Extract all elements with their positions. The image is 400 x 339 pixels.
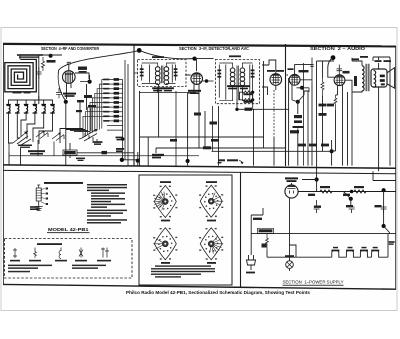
schematic top rule: [3, 44, 396, 47]
label ps left: [253, 218, 262, 220]
wafer S2B outline: [200, 228, 222, 260]
heater top bars: [331, 250, 379, 252]
coupling cap C12: [310, 58, 314, 84]
node dot rail bus: [120, 158, 124, 162]
capacitor C1: [36, 67, 42, 79]
R21 label: [343, 186, 364, 196]
node dot ladder bottom: [121, 137, 125, 141]
resistor R7 in T2: [242, 99, 253, 101]
wafer S1B pin numbers: [199, 185, 223, 217]
panel sym3: [59, 248, 61, 259]
C22 label: [375, 205, 382, 207]
V3 plate: [273, 74, 280, 76]
converter tube V1 envelope: [63, 71, 76, 84]
T2 primary coil: [230, 68, 235, 86]
wire V4 plate out: [297, 88, 310, 92]
wire V4 lower: [298, 91, 308, 166]
wafer S1B wiper lines: [211, 193, 223, 206]
wire antenna to tube: [43, 54, 62, 56]
resistor R6 in T2: [242, 91, 253, 93]
V5 cathode resistor R13: [334, 95, 337, 110]
speaker label: [375, 60, 392, 62]
resistor R1 vertical: [41, 57, 44, 71]
node dot S3 top: [382, 224, 386, 228]
IF transformer T1 shield box: [138, 60, 187, 87]
ladder nest wires: [83, 80, 107, 137]
T3 core bars: [365, 64, 369, 91]
wire lamp: [290, 198, 297, 271]
wafer S2A hub: [162, 241, 168, 247]
filter resistor R20: [320, 190, 332, 193]
avc labels: [170, 139, 219, 142]
socket box text: [151, 265, 215, 277]
osc pointer digits: [46, 188, 48, 206]
wire right tp: [373, 171, 396, 226]
node dot C14: [330, 149, 334, 153]
osc components labels: [76, 95, 96, 112]
wafer part labels: [160, 181, 217, 264]
T1 side rails: [150, 65, 173, 83]
coil row L2-L7: [6, 104, 55, 113]
wire V2 grid top: [185, 59, 214, 75]
wire top grid arc: [58, 50, 194, 100]
instructions text block: [87, 184, 127, 224]
R20 label: [308, 186, 330, 196]
V5 top lead: [337, 65, 343, 75]
panel sym5: [101, 248, 109, 258]
test point label 2: [76, 158, 85, 161]
node dot below V1: [64, 100, 68, 104]
wire ps left column: [251, 208, 263, 234]
wafer S2B pin numbers: [199, 228, 223, 260]
V6 plate hatch: [288, 189, 296, 194]
bus wire chassis: [3, 170, 396, 173]
heater right label: [389, 241, 395, 245]
osc coil top lug: [37, 185, 40, 188]
wire V5 grid lead: [328, 58, 335, 77]
V2 cathode resistor label: [194, 113, 217, 125]
oscillator coil drawing: [35, 188, 43, 211]
osc coil hatch: [36, 191, 41, 199]
resistor 55ohm vertical: [266, 234, 269, 250]
loop antenna label: [13, 54, 44, 93]
T3 primary hookup: [352, 58, 362, 92]
schematic left frame: [2, 44, 4, 285]
section divider 4/3: [133, 44, 135, 166]
V3 label: [267, 70, 284, 72]
T2 bottom label: [245, 108, 253, 111]
svg-text:SECTION 1–POWER SUPPLY: SECTION 1–POWER SUPPLY: [283, 279, 344, 284]
wafer S1A pin numbers: [153, 186, 177, 218]
panel text lines: [8, 265, 106, 273]
tube V1 plate: [65, 73, 73, 75]
wafer S1B pins: [204, 193, 218, 209]
mid labels R10 R11: [298, 104, 334, 147]
node dot V4 plate: [300, 86, 304, 90]
wire V1 cathode to bus: [65, 102, 67, 166]
panel sym2: [34, 248, 37, 258]
wire heater string right: [387, 234, 389, 258]
model heading underline: [47, 231, 90, 234]
test point label S1: [18, 145, 32, 148]
schematic bottom rule: [3, 284, 396, 289]
speaker voice coil secondary: [374, 71, 376, 88]
switch S1 arrow: [24, 132, 27, 135]
osc coil label: [30, 206, 40, 210]
T2 trimmer out: [252, 65, 254, 98]
wire T1 in: [134, 73, 196, 93]
wire plug drop: [250, 234, 252, 255]
wire T1 sec down: [175, 91, 177, 166]
output transformer T3 primary: [362, 66, 364, 91]
T1 hookup wires: [142, 63, 176, 84]
wire hum bus: [251, 233, 396, 234]
switch contacts mid: [36, 131, 64, 141]
test point label ladder: [116, 137, 123, 141]
tube V1 grid hatch: [65, 71, 72, 83]
heater V2h: [346, 251, 360, 258]
T1 core: [162, 66, 163, 84]
wafer S1A pins: [158, 193, 172, 209]
label near rail: [116, 148, 124, 152]
V4 plate: [292, 75, 298, 77]
wire dot to bus: [187, 161, 189, 166]
wire V2 plate right: [203, 80, 214, 82]
filter cap C21: [349, 207, 355, 213]
wafer S1A wiper lines: [153, 192, 165, 211]
C21 label: [346, 205, 353, 207]
wafer S1A hub: [162, 199, 168, 205]
wire T2 to V3: [262, 60, 276, 95]
osc coil pointers: [41, 189, 45, 204]
R4 value fill: [64, 151, 76, 154]
switch mid arrows: [42, 131, 61, 135]
node dot above V2: [192, 57, 196, 61]
wire R13 down: [332, 84, 343, 166]
component box R4: [63, 150, 77, 155]
wire coil1 down: [9, 113, 14, 143]
V4 bias labels: [290, 115, 304, 133]
volume control labels: [218, 159, 239, 163]
node dot V2 bus: [186, 159, 190, 163]
wafer S2B wiper lines: [210, 236, 224, 254]
padder left value marks: [103, 79, 109, 122]
wire coil5 down: [33, 113, 44, 139]
lamp filament: [287, 262, 292, 267]
ladder tie verticals: [123, 60, 128, 166]
resistor R2 label: [78, 67, 87, 73]
instructions heading: [44, 182, 83, 184]
wire mid column: [312, 61, 334, 166]
avc line 2: [156, 106, 286, 166]
wafer S2A outline: [154, 228, 176, 260]
V4 grid hatch: [291, 75, 299, 85]
wire switch mid drops: [9, 140, 199, 156]
loop antenna LA: [5, 59, 37, 91]
tube V1 top cap: [67, 62, 71, 70]
node dot TP1: [49, 54, 53, 58]
C20 label: [314, 206, 321, 208]
antenna lead wire: [20, 55, 39, 104]
wafer S1A outline: [154, 186, 176, 218]
resistor R21: [354, 190, 366, 193]
55ohm label: [262, 244, 267, 248]
wire coil6 down: [39, 113, 53, 142]
T1 trimmer out: [175, 65, 177, 81]
T1 value labels: [152, 87, 174, 91]
node dot V2 plate out: [205, 79, 209, 83]
wire ladder top left: [80, 75, 90, 82]
T1 primary coil: [155, 67, 160, 85]
wafer S1B outline: [200, 185, 222, 217]
svg-text:SECTION 4–RF AND CONVERTER: SECTION 4–RF AND CONVERTER: [41, 46, 100, 51]
wire audio B+ top: [389, 57, 391, 84]
panel symbol labels: [10, 260, 111, 262]
switch S2 arrow: [94, 129, 97, 132]
wafer S2B pins: [204, 236, 218, 252]
capacitor C2: [56, 88, 62, 98]
wire af column: [303, 63, 305, 166]
wave trap label: [28, 150, 45, 154]
V2 label: [188, 90, 201, 94]
T1 label: [152, 56, 164, 58]
panel fuse symbol: [13, 248, 17, 258]
heater labels: [333, 247, 378, 249]
wire dot down: [297, 102, 299, 114]
V2 grid hatch: [192, 73, 201, 84]
node dot ladder top left: [88, 80, 92, 84]
svg-text:Philco Radio Model 42-PB1, Sec: Philco Radio Model 42-PB1, Sectionalized…: [126, 290, 311, 295]
wafer S2A pin numbers: [153, 228, 177, 260]
wire V4 cathode: [289, 78, 292, 166]
wire coil tops bus: [9, 96, 53, 104]
wire coil2 down: [17, 113, 20, 138]
T1 secondary coil: [164, 67, 169, 85]
section 1 header underline: [283, 284, 344, 287]
wire rail to divider: [123, 139, 138, 160]
rectifier tube V6: [285, 185, 298, 198]
node dot top V5: [331, 55, 336, 60]
socket diagram box: [139, 175, 232, 285]
coil tap ticks: [7, 105, 55, 107]
padder trimmer boxes: [114, 78, 119, 122]
section divider 3/2: [285, 44, 287, 166]
speaker cone: [387, 68, 395, 89]
speaker terminal blobs: [380, 75, 385, 86]
speaker LS1 can: [371, 69, 387, 87]
T2 hookup wires: [219, 63, 252, 101]
band switch S1 front: [9, 131, 39, 152]
det tube V3: [270, 74, 282, 86]
schematic right frame: [395, 46, 397, 289]
T3 label vertical: [354, 76, 357, 86]
resistor R12 vertical: [321, 78, 324, 96]
T2 label: [229, 55, 241, 57]
T2 core: [237, 66, 238, 101]
cap C22: [381, 207, 387, 213]
wire B+ line: [292, 183, 397, 192]
cap label near antenna: [47, 60, 56, 63]
wire coil4 down: [27, 113, 35, 136]
switch arm V4: [292, 95, 304, 102]
node dot right TP: [382, 188, 386, 192]
avc line: [140, 61, 264, 166]
wire V2 cathode: [188, 85, 199, 160]
V3 grid hatch: [272, 74, 281, 84]
V6 label 35Z3: [285, 177, 298, 182]
wire switch to bus: [9, 148, 21, 166]
AF tube V4: [289, 74, 300, 85]
node dot mid wire: [350, 190, 354, 194]
IF transformer T2 shield box: [215, 60, 259, 104]
volume control wiper: [239, 160, 243, 164]
node dot divider bus: [136, 159, 140, 163]
wafer S2A wiper lines: [153, 239, 165, 249]
47ohm label fill: [259, 229, 273, 232]
line cord label 47ohm: [258, 228, 274, 233]
output tube V5: [334, 75, 345, 86]
wire V5 cathode: [336, 80, 353, 95]
V4 label: [288, 68, 309, 72]
IF amp tube V2: [191, 73, 203, 85]
R6 R7 value bars: [244, 93, 253, 102]
wire ladder bottoms: [60, 129, 90, 144]
wafer S2B hub: [208, 241, 214, 247]
heater V1h: [296, 251, 346, 258]
wire T2 internal drops: [237, 88, 253, 108]
V6 cathode bar: [288, 185, 295, 187]
bus wire B-: [3, 165, 396, 168]
tube panel label: [37, 243, 62, 245]
resistor label on avc line: [203, 146, 211, 149]
T1 trimmer in: [141, 65, 143, 81]
wafer S2A pins: [158, 236, 172, 252]
wire avc y151: [212, 106, 286, 151]
tube panel box: [5, 239, 133, 279]
V5 grid hatch: [336, 75, 344, 85]
wire speaker top: [373, 57, 390, 92]
wire osc section: [80, 84, 91, 132]
label box on switch line: [102, 151, 108, 154]
wire tp down: [302, 151, 317, 191]
V5 label: [343, 56, 369, 74]
wire C14: [286, 140, 332, 166]
wire R4 line: [70, 143, 134, 158]
wire mid dot: [344, 192, 352, 208]
svg-text:SECTION 2 – AUDIO: SECTION 2 – AUDIO: [310, 46, 366, 51]
wire V3 down: [274, 85, 276, 165]
wire 55ohm: [267, 250, 296, 257]
tube V1 label 7A8: [63, 93, 76, 97]
band switch S2 rear: [79, 130, 97, 143]
padder ladder rungs: [107, 80, 123, 131]
wafer S1B hub: [208, 198, 214, 204]
plug label: [246, 272, 255, 274]
wire audio buses: [348, 84, 391, 171]
svg-text:SECTION 3–IF, DETECTOR,AND AV: SECTION 3–IF, DETECTOR,AND AVC: [179, 46, 250, 51]
wire divider aux: [137, 152, 139, 166]
T2 side rails: [226, 65, 250, 100]
filter cap C20: [314, 200, 320, 213]
on-off switch S3: [384, 226, 390, 233]
panel sym4: [79, 248, 83, 258]
V2 plate: [193, 73, 200, 75]
node dot V4: [296, 100, 300, 104]
divider power supply left: [240, 172, 242, 287]
heater V5h: [372, 251, 388, 258]
wire V4 top: [287, 65, 313, 80]
wire plate V1: [75, 73, 89, 79]
R6 R7 junction dots: [251, 91, 254, 102]
node dot mid: [349, 197, 353, 201]
test point label S2: [93, 141, 103, 145]
dial lamp I1: [286, 261, 294, 269]
wire V3 avc dashed: [273, 90, 275, 137]
power plug P1: [247, 255, 256, 270]
wire R12: [322, 61, 324, 151]
T2 trimmer in: [218, 65, 220, 98]
V5 plate: [336, 75, 342, 77]
lamp label: [285, 255, 294, 257]
wire diode load: [237, 105, 289, 109]
T2 secondary coil: [240, 68, 245, 86]
T2 value labels: [227, 85, 250, 89]
label near divider s3: [152, 154, 164, 159]
node dot T2 out: [235, 108, 238, 111]
wire coil3 down: [21, 113, 26, 133]
heater V4h: [360, 251, 371, 258]
node dot TP rect: [315, 177, 319, 181]
tube V1 cathode lead: [67, 83, 72, 99]
node dot divider top: [137, 48, 142, 53]
